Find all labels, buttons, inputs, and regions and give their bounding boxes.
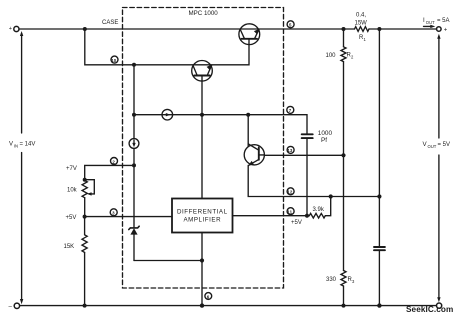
node: junction base drive	[132, 63, 136, 67]
wire: 3.9k right lead up to sense wire	[325, 197, 330, 216]
resistor 15K	[82, 235, 87, 253]
pin 7	[287, 106, 294, 113]
svg-text:10k: 10k	[67, 187, 78, 193]
svg-text:10: 10	[111, 58, 116, 63]
label VOUT = 5V	[423, 141, 451, 149]
label R2	[347, 53, 355, 60]
wire: Q3 collector column upper	[247, 115, 249, 147]
wire: R2 column upper lead	[343, 29, 345, 47]
label 1000 Pf	[318, 130, 333, 144]
node: junction +7V wire	[132, 163, 136, 167]
wire: diff amp bottom lead to ground rail	[201, 233, 203, 306]
svg-text:= 14V: = 14V	[20, 142, 36, 148]
wire: Q3 base to R2 column	[264, 154, 343, 156]
capacitor C2 output	[374, 247, 385, 306]
svg-text:13: 13	[287, 148, 292, 153]
pin 2	[111, 158, 118, 165]
svg-text:MPC 1000: MPC 1000	[189, 10, 219, 17]
svg-text:Pf: Pf	[321, 137, 327, 144]
node: junction input drop	[83, 27, 87, 31]
node: junction C2 bottom	[377, 303, 381, 307]
pin 11	[287, 208, 294, 215]
wire: 15K top lead	[84, 217, 86, 235]
label IOUT = 5A	[423, 17, 450, 25]
wire: zener bottom to diff-amp bottom node	[134, 260, 202, 262]
node: junction C1 bottom / 3.9k left	[305, 214, 309, 218]
Vin measurement arrow line (left)	[20, 31, 23, 304]
node: junction 115 wire left	[132, 113, 136, 117]
svg-text:= 5V: = 5V	[438, 142, 451, 148]
label VIN = 14V	[9, 142, 35, 149]
svg-text:= 5A: = 5A	[437, 18, 450, 24]
MPC1000 package dashed outline	[123, 8, 284, 289]
label R3	[348, 277, 356, 284]
wire: +5V wire into diff amp	[85, 216, 172, 218]
node: junction 15K bottom	[83, 304, 87, 308]
svg-text:+: +	[444, 27, 448, 33]
wire: internal column x=134 lower	[133, 148, 135, 227]
Vout measurement arrow line (right)	[437, 34, 440, 303]
zener diode D1	[129, 226, 139, 260]
wire: top rail from R1 to output terminal	[369, 28, 437, 30]
svg-text:OUT: OUT	[428, 144, 437, 149]
wire: internal column x=134 upper	[133, 65, 135, 139]
svg-text:+7V: +7V	[66, 166, 77, 172]
node: junction diff-amp bottom	[200, 258, 204, 262]
node: junction R2 bottom	[341, 153, 345, 157]
pin 5	[287, 21, 294, 28]
pin 3	[110, 209, 117, 216]
wire: top rail from input terminal to R1	[19, 28, 355, 30]
pin 13	[287, 146, 294, 153]
potentiometer 10k	[82, 178, 94, 198]
svg-text:CASE: CASE	[102, 20, 118, 26]
wire: R3 bottom lead	[343, 286, 345, 306]
output terminal +	[437, 27, 448, 34]
svg-text:V: V	[9, 142, 13, 148]
wire: pot bottom to +5V node	[84, 198, 86, 217]
wire: Q2 base lead down to diff-amp top	[201, 76, 203, 199]
svg-text:IN: IN	[14, 143, 18, 148]
wire: Q3 emitter column lower	[248, 165, 331, 196]
current source I2 (right arrow)	[162, 109, 173, 120]
label R1	[359, 35, 367, 42]
node: junction R1 left / R2 top	[342, 27, 346, 31]
svg-text:0.4,: 0.4,	[356, 13, 366, 19]
svg-text:330: 330	[326, 277, 337, 283]
bottom right terminal	[437, 303, 442, 308]
transistor Q3	[244, 144, 264, 166]
pin 10	[111, 56, 118, 63]
svg-text:11: 11	[287, 210, 292, 215]
transistor Q1	[239, 24, 260, 45]
bottom left terminal -	[9, 303, 20, 310]
op-amp U1 differential amplifier box	[172, 199, 233, 233]
svg-text:100: 100	[326, 53, 337, 59]
resistor R1 0.4 ohm 15W	[355, 27, 370, 32]
node: junction output column sense	[377, 194, 381, 198]
svg-text:15W: 15W	[355, 20, 368, 26]
capacitor C1 1000 pF	[302, 134, 313, 215]
svg-text:AMPLIFIER: AMPLIFIER	[183, 216, 221, 223]
wire: bottom ground rail	[20, 305, 437, 307]
resistor R3 330	[341, 271, 346, 287]
svg-text:+5V: +5V	[66, 215, 77, 221]
svg-text:I: I	[423, 17, 425, 24]
svg-text:3.9k: 3.9k	[313, 207, 325, 213]
wire: +7V wire	[85, 165, 134, 179]
svg-text:+: +	[9, 26, 12, 32]
wire: 15K bottom lead	[84, 252, 86, 305]
pin 6	[205, 293, 212, 300]
node: junction +5V / divider	[83, 215, 87, 219]
node: junction 3.9k top	[329, 194, 333, 198]
svg-text:12: 12	[287, 190, 292, 195]
node: junction Q3 collector column	[246, 113, 250, 117]
wire: R2 to R3 column	[343, 62, 345, 271]
svg-text:15K: 15K	[64, 244, 75, 250]
pin 12	[287, 188, 294, 195]
resistor R2 100	[341, 47, 346, 62]
current source I1 (down arrow)	[129, 139, 139, 149]
svg-text:OUT: OUT	[426, 20, 435, 25]
node: junction R1 right / C2 column	[377, 27, 381, 31]
node: junction diff amp ground	[200, 303, 204, 307]
input terminal +	[9, 26, 19, 32]
node: junction Q2 base / 115 wire	[200, 113, 204, 117]
transistor Q2	[192, 61, 213, 82]
wire: drop from top rail to pin-10 wire	[85, 29, 249, 65]
wire: output filter column	[378, 29, 380, 246]
wire: y=196.5 sense wire to output column	[331, 196, 380, 198]
svg-text:+5V: +5V	[291, 220, 302, 226]
node: junction R3 bottom	[342, 304, 346, 308]
arrow: output current arrow	[424, 25, 436, 28]
resistor 3.9k	[309, 213, 325, 218]
svg-text:SeekIC.com: SeekIC.com	[406, 305, 453, 314]
wire: internal bias wire y=114.7	[134, 115, 307, 134]
wire: diff amp right output wire	[233, 215, 310, 217]
svg-text:DIFFERENTIAL: DIFFERENTIAL	[177, 209, 228, 216]
